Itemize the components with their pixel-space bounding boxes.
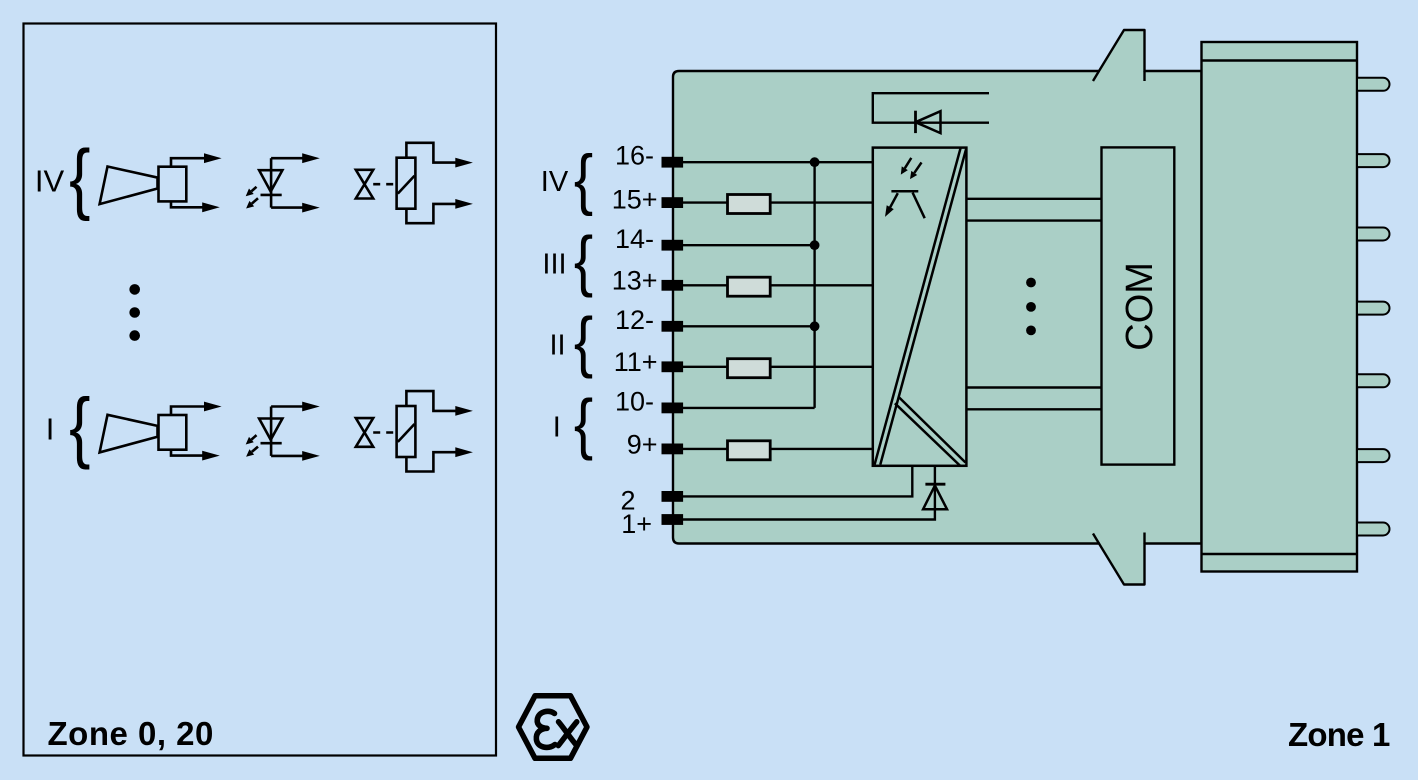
svg-text:12-: 12-	[615, 305, 654, 335]
top feedback loop wires	[873, 93, 989, 123]
svg-text:{: {	[574, 304, 593, 379]
bottom tab overshoot lines	[1093, 534, 1099, 544]
wire 13+ right of resistor	[770, 284, 873, 286]
isolator block U1	[873, 148, 967, 466]
wire 15+ right of resistor	[770, 201, 873, 203]
svg-text:Zone 0, 20: Zone 0, 20	[48, 715, 214, 752]
svg-text:{: {	[574, 386, 593, 461]
terminal block 14-	[662, 240, 684, 251]
terminal block 12-	[662, 321, 684, 332]
top tab overshoot lines	[1093, 71, 1099, 81]
svg-text:1+: 1+	[621, 509, 652, 539]
diode D2 (bottom, pointing up)	[925, 483, 945, 486]
svg-text:I: I	[553, 412, 561, 444]
svg-text:14-: 14-	[615, 224, 654, 254]
zone 0,20 boundary box	[24, 24, 497, 756]
vertical ellipsis dots (module)	[1026, 278, 1036, 336]
secondary barrier branch double diagonal	[899, 397, 966, 463]
wire 15+ left of resistor	[683, 201, 728, 203]
terminal block 11+	[662, 361, 684, 372]
valve/solenoid symbol channel I	[356, 391, 456, 471]
terminal block 16-	[662, 157, 684, 168]
optocoupler light arrows inside U1	[905, 158, 922, 173]
resistor R (channel II)	[728, 359, 771, 378]
common bus vertical wire	[813, 162, 815, 408]
wire terminal 1+	[683, 466, 935, 520]
connector top cap line	[1202, 59, 1358, 61]
svg-text:{: {	[69, 134, 90, 222]
connector pin 4	[1357, 302, 1390, 315]
junction node at 12-	[810, 321, 820, 331]
resistor R (channel I)	[728, 441, 771, 460]
connector pin 7	[1357, 523, 1390, 536]
junction node at 14-	[810, 240, 820, 250]
diode D1 (top, pointing left)	[914, 111, 917, 133]
wire 11+ right of resistor	[770, 366, 873, 368]
connector pin 6	[1357, 449, 1390, 462]
svg-text:{: {	[69, 382, 90, 470]
vertical ellipsis dots (left box)	[129, 284, 140, 341]
connector pin 5	[1357, 374, 1390, 387]
wire 11+ left of resistor	[683, 366, 728, 368]
wire 14-	[683, 244, 815, 246]
phototransistor inside U1	[890, 191, 925, 218]
connection wires U1 to COM (bottom pair)	[966, 386, 1101, 388]
LED symbol channel IV	[251, 158, 303, 207]
connector pin 1	[1357, 78, 1390, 91]
connection wires U1 to COM (top pair)	[966, 198, 1101, 200]
sounder/horn symbol channel I	[100, 407, 205, 456]
terminal block 2	[662, 491, 684, 502]
svg-text:10-: 10-	[615, 386, 654, 416]
valve/solenoid symbol channel IV	[356, 143, 456, 223]
LED symbol channel I	[251, 407, 303, 456]
svg-text:IV: IV	[541, 166, 569, 198]
resistor R (channel III)	[728, 277, 771, 296]
connector pin 2	[1357, 154, 1390, 167]
wire 10-	[683, 407, 815, 409]
wire 9+ right of resistor	[770, 448, 873, 450]
terminal block 9+	[662, 444, 684, 455]
terminal block 10-	[662, 403, 684, 414]
svg-text:III: III	[542, 248, 566, 280]
terminal block 15+	[662, 197, 684, 208]
wire 12-	[683, 325, 815, 327]
connector pin 3	[1357, 228, 1390, 241]
svg-text:{: {	[574, 223, 593, 298]
COM block	[1102, 147, 1175, 464]
isolation barrier double diagonal	[875, 148, 961, 465]
svg-text:II: II	[549, 330, 565, 362]
wire terminal 2	[683, 466, 912, 497]
svg-text:COM: COM	[1119, 262, 1161, 351]
terminal block 1+	[662, 514, 684, 525]
svg-text:13+: 13+	[612, 265, 658, 295]
wire 16-	[683, 161, 873, 163]
backplane connector block	[1202, 42, 1358, 572]
svg-text:{: {	[574, 142, 593, 217]
connector bottom cap line	[1202, 553, 1358, 555]
svg-text:11+: 11+	[614, 347, 658, 377]
module body (Zone 1 barrier device)	[673, 30, 1202, 585]
sounder/horn symbol channel IV	[100, 158, 205, 207]
svg-text:9+: 9+	[627, 429, 658, 459]
svg-text:16-: 16-	[615, 140, 654, 170]
resistor R (channel IV)	[728, 195, 771, 214]
wire 9+ left of resistor	[683, 448, 728, 450]
terminal block 13+	[662, 280, 684, 291]
svg-text:15+: 15+	[612, 184, 658, 214]
svg-text:IV: IV	[35, 163, 65, 198]
svg-text:Zone 1: Zone 1	[1288, 716, 1390, 753]
junction node at 16-	[810, 157, 820, 167]
Ex hexagon logo	[519, 696, 588, 759]
svg-text:I: I	[46, 412, 55, 447]
wire 13+ left of resistor	[683, 284, 728, 286]
